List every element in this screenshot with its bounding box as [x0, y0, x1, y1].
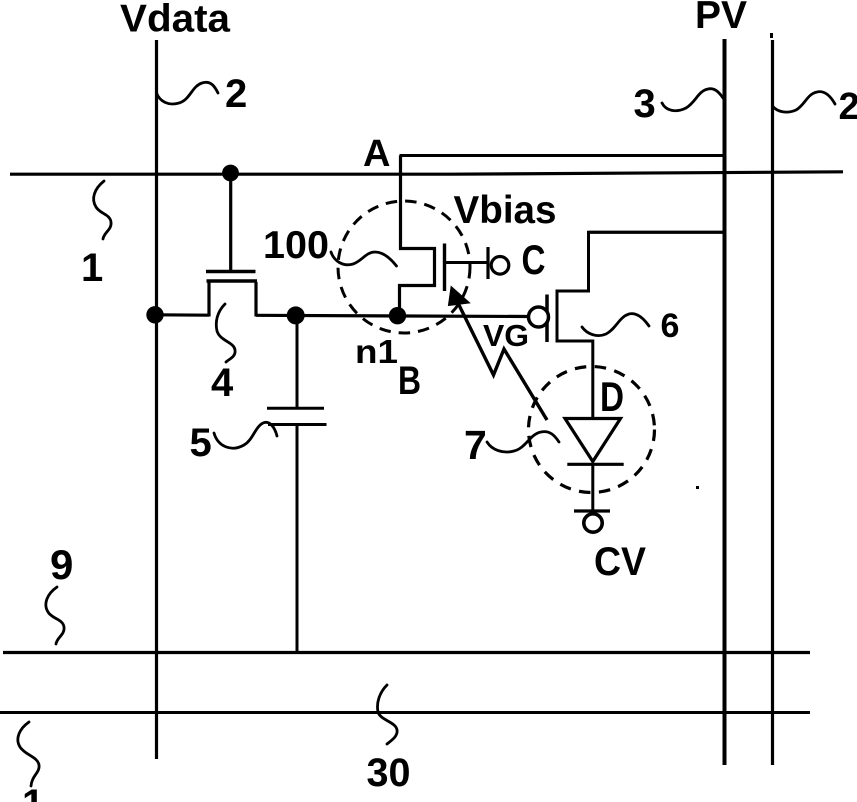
svg-text:6: 6	[661, 307, 680, 345]
svg-text:D: D	[600, 373, 624, 420]
svg-text:7: 7	[464, 422, 487, 468]
svg-text:C: C	[522, 236, 546, 283]
svg-text:2: 2	[839, 86, 857, 128]
svg-text:2: 2	[225, 72, 247, 116]
svg-text:1: 1	[81, 246, 103, 290]
svg-text:B: B	[398, 359, 421, 403]
svg-text:PV: PV	[695, 0, 747, 37]
svg-text:Vdata: Vdata	[120, 0, 230, 41]
svg-text:CV: CV	[594, 540, 646, 584]
svg-text:VG: VG	[483, 318, 529, 353]
svg-text:1: 1	[22, 782, 44, 802]
svg-text:Vbias: Vbias	[454, 189, 557, 232]
svg-text:30: 30	[367, 751, 411, 795]
svg-text:5: 5	[190, 421, 212, 465]
svg-text:100: 100	[263, 224, 329, 267]
svg-text:A: A	[363, 133, 390, 175]
svg-text:9: 9	[50, 541, 73, 588]
svg-text:3: 3	[634, 82, 656, 126]
svg-text:n1: n1	[355, 333, 398, 370]
svg-text:4: 4	[211, 361, 234, 405]
